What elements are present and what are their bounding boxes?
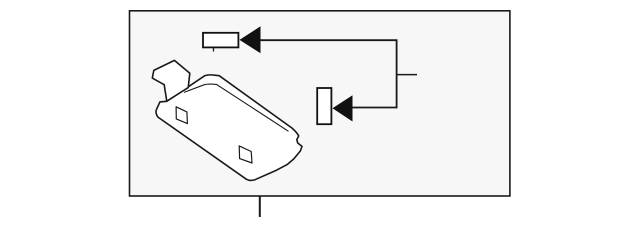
tick on vertical wire bbox=[397, 74, 417, 76]
arrow 1 bbox=[240, 26, 261, 53]
lamp housing body bbox=[156, 75, 302, 181]
callout box 2 bbox=[317, 88, 331, 124]
box 1 tick bbox=[213, 48, 215, 52]
lens inner line bbox=[184, 84, 289, 131]
leader line bottom bbox=[259, 196, 261, 217]
hole 2 bbox=[239, 146, 252, 163]
mounting tab bbox=[152, 60, 190, 101]
wire from arrow 1 to corner and down bbox=[260, 40, 397, 107]
hole 1 bbox=[176, 107, 187, 124]
arrow 2 bbox=[333, 95, 353, 121]
callout box 1 bbox=[203, 33, 238, 48]
